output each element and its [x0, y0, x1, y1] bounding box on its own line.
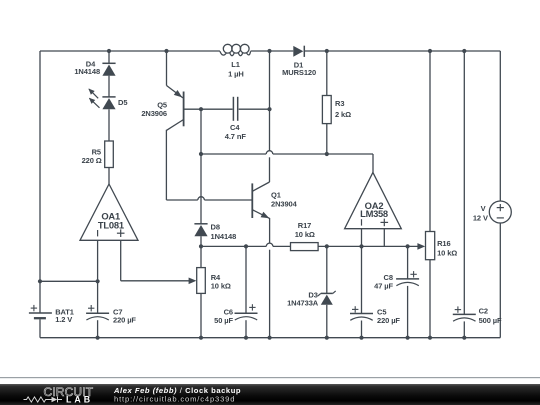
svg-text:R17: R17	[298, 221, 311, 230]
svg-text:TL081: TL081	[98, 219, 124, 230]
svg-text:1 µH: 1 µH	[228, 69, 244, 78]
svg-text:R4: R4	[211, 273, 221, 282]
svg-text:2N3904: 2N3904	[271, 200, 298, 209]
svg-text:220 µF: 220 µF	[377, 316, 400, 325]
svg-text:12 V: 12 V	[473, 213, 488, 222]
svg-text:10 kΩ: 10 kΩ	[295, 230, 315, 239]
svg-text:C2: C2	[479, 307, 488, 316]
svg-text:L1: L1	[231, 60, 240, 69]
svg-text:47 µF: 47 µF	[374, 281, 393, 290]
svg-text:4.7 nF: 4.7 nF	[225, 132, 247, 141]
svg-text:LM358: LM358	[360, 208, 388, 219]
svg-text:220 µF: 220 µF	[113, 316, 136, 325]
svg-text:MURS120: MURS120	[282, 68, 316, 77]
svg-text:1.2 V: 1.2 V	[55, 315, 72, 324]
svg-text:V: V	[481, 204, 486, 213]
svg-text:10 kΩ: 10 kΩ	[437, 249, 457, 258]
svg-text:http://circuitlab.com/c4p339d: http://circuitlab.com/c4p339d	[114, 395, 235, 404]
svg-text:1N4148: 1N4148	[74, 67, 100, 76]
svg-text:2 kΩ: 2 kΩ	[335, 110, 351, 119]
svg-text:C6: C6	[224, 308, 233, 317]
svg-text:1N4733A: 1N4733A	[287, 299, 319, 308]
svg-text:220 Ω: 220 Ω	[82, 156, 102, 165]
svg-text:C4: C4	[230, 123, 240, 132]
svg-text:D5: D5	[118, 98, 127, 107]
svg-text:R16: R16	[437, 239, 450, 248]
svg-text:1N4148: 1N4148	[211, 232, 237, 241]
svg-text:10 kΩ: 10 kΩ	[211, 282, 231, 291]
svg-text:50 µF: 50 µF	[214, 316, 233, 325]
svg-text:R3: R3	[335, 99, 344, 108]
svg-text:2N3906: 2N3906	[141, 109, 167, 118]
svg-text:500 µF: 500 µF	[479, 316, 502, 325]
svg-text:Alex Feb (febb) / Clock backup: Alex Feb (febb) / Clock backup	[113, 386, 241, 395]
svg-text:D8: D8	[211, 223, 220, 232]
svg-text:LAB: LAB	[66, 394, 93, 404]
svg-text:Q1: Q1	[271, 191, 281, 200]
svg-text:C5: C5	[377, 307, 386, 316]
